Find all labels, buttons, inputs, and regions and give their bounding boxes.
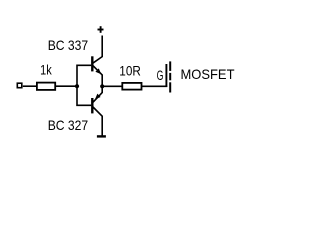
wire R1 to base node — [56, 85, 78, 87]
node base junction — [75, 84, 79, 88]
wire R2 to gate — [142, 85, 167, 87]
wire output to R2 — [102, 85, 121, 87]
svg-text:BC 337: BC 337 — [48, 37, 89, 53]
svg-text:BC 327: BC 327 — [48, 117, 89, 133]
svg-text:10R: 10R — [119, 62, 141, 78]
svg-text:MOSFET: MOSFET — [181, 66, 235, 82]
input terminal — [17, 83, 22, 88]
MOSFET channel segment 3 — [169, 82, 171, 92]
resistor R1 1k — [37, 83, 55, 90]
Q1 emitter arrow — [95, 68, 101, 74]
resistor R2 10R — [122, 83, 141, 90]
transistor Q1 BC337 bar — [91, 56, 93, 71]
ground — [97, 135, 106, 137]
Q2 emitter wire — [93, 93, 102, 103]
MOSFET channel segment 2 — [169, 73, 171, 80]
Q1 emitter wire — [93, 66, 102, 75]
svg-text:G: G — [157, 68, 164, 83]
svg-text:1k: 1k — [40, 63, 52, 78]
node output junction — [100, 84, 104, 88]
transistor Q2 BC327 bar — [91, 98, 93, 113]
Q2 emitter arrow — [95, 94, 101, 100]
Q2 collector wire to ground — [93, 107, 102, 136]
wire input to R1 — [23, 85, 37, 87]
+ supply symbol — [98, 29, 104, 31]
MOSFET channel segment 1 — [169, 61, 171, 71]
Q1 collector wire to + — [93, 36, 102, 64]
MOSFET gate plate — [165, 64, 167, 87]
wire emitters vertical — [101, 75, 103, 94]
base rail wire — [77, 65, 91, 105]
